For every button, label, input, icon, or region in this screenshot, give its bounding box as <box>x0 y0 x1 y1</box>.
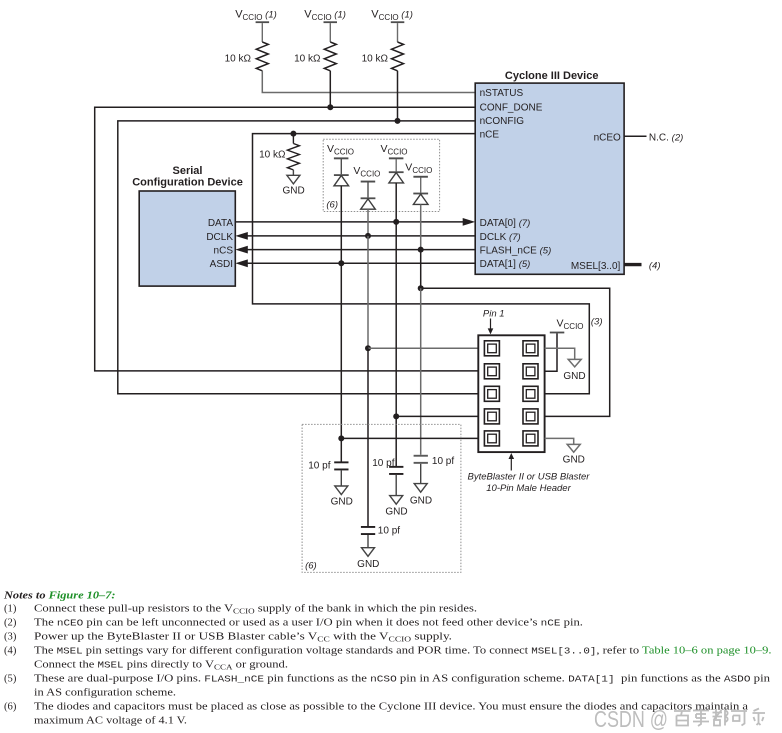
capacitor C4 10 pf <box>414 455 455 467</box>
bus MSEL[3..0] stub <box>624 263 641 266</box>
svg-text:Connect the MSEL pins directly: Connect the MSEL pins directly to VCCA o… <box>34 660 288 672</box>
svg-text:10-Pin Male Header: 10-Pin Male Header <box>486 483 571 494</box>
junction D4/nCS <box>418 247 424 253</box>
note 2 <box>4 618 583 629</box>
arrowhead into DATA[0] <box>463 218 476 226</box>
arrowhead into ASDI of U2 <box>235 259 248 267</box>
wire CONF_DONE loop to header pin 3 <box>95 107 479 371</box>
wire resistor R2 to CONF_DONE line <box>329 71 331 108</box>
svg-text:nCE: nCE <box>480 129 500 140</box>
svg-text:(3): (3) <box>591 316 603 327</box>
wire D4 to nCS line <box>420 204 422 249</box>
svg-text:GND: GND <box>410 496 432 507</box>
ground GND below C2 <box>357 535 379 570</box>
svg-text:(6): (6) <box>4 702 17 713</box>
svg-text:10 pf: 10 pf <box>432 456 454 467</box>
svg-text:nCEO: nCEO <box>594 132 621 143</box>
ground GND at header pin 10 <box>545 438 585 465</box>
pin 6 square <box>523 386 538 401</box>
svg-text:DATA: DATA <box>208 218 234 229</box>
svg-text:DCLK: DCLK <box>206 232 233 243</box>
note 1 <box>4 604 477 616</box>
resistor R4 10 kOhm pull-down on nCE <box>259 134 299 170</box>
svg-text:Connect these pull-up resistor: Connect these pull-up resistors to the V… <box>34 604 477 616</box>
wire resistor R3 to nCONFIG line <box>397 71 399 121</box>
svg-text:Cyclone III Device: Cyclone III Device <box>505 70 599 82</box>
svg-text:10 pf: 10 pf <box>372 458 394 469</box>
svg-text:CSDN @: CSDN @ <box>594 706 668 732</box>
wire D3 to DATA line <box>395 183 397 222</box>
svg-text:nCS: nCS <box>214 246 234 257</box>
label ByteBlaster with arrow <box>468 453 591 494</box>
watermark CSDN <box>594 706 765 732</box>
svg-text:10 pf: 10 pf <box>308 460 330 471</box>
svg-text:Configuration Device: Configuration Device <box>132 177 243 189</box>
svg-text:Serial: Serial <box>173 165 203 177</box>
note 5 <box>4 674 771 699</box>
chip U1 Cyclone III Device <box>475 70 624 274</box>
wire ASDI line <box>247 262 475 264</box>
pin 3 square <box>484 364 499 379</box>
svg-text:(3): (3) <box>4 632 17 643</box>
wire DCLK line <box>247 235 475 237</box>
junction DATA/header pin 7 tap <box>393 413 399 419</box>
svg-text:GND: GND <box>563 371 585 382</box>
wire nCONFIG loop to header pin 5 <box>118 121 479 394</box>
svg-text:in AS configuration scheme.: in AS configuration scheme. <box>34 688 176 699</box>
pin 8 square <box>523 409 538 424</box>
junction ASDI/header pin 9 tap <box>338 435 344 441</box>
power rail VCCIO for D3 <box>381 143 408 159</box>
junction D2/DCLK <box>365 233 371 239</box>
wire resistor R1 to nSTATUS line <box>262 71 475 93</box>
wire DCLK down (gray) to pin1 tap <box>367 236 369 348</box>
svg-text:10 pf: 10 pf <box>378 526 400 537</box>
power rail VCCIO (1) for R2 <box>304 9 346 24</box>
svg-text:FLASH_nCE (5): FLASH_nCE (5) <box>480 246 552 257</box>
capacitor C1 10 pf <box>308 460 348 471</box>
junction R2/CONF_DONE <box>327 104 333 110</box>
svg-text:These are dual-purpose I/O pin: These are dual-purpose I/O pins. FLASH_n… <box>34 674 771 685</box>
diode clamp box (6) dotted <box>323 139 439 211</box>
svg-text:GND: GND <box>282 185 304 196</box>
svg-text:CONF_DONE: CONF_DONE <box>480 103 543 114</box>
svg-text:(4): (4) <box>4 646 17 657</box>
wire DATA down to capacitor C3 <box>395 222 397 466</box>
connector J1 ByteBlaster 10-pin header outline <box>478 335 544 452</box>
power rail VCCIO (1) for R1 <box>235 9 277 24</box>
note 3 <box>4 632 452 644</box>
svg-text:DCLK (7): DCLK (7) <box>480 232 521 243</box>
wire ASDI down to capacitor C1 <box>340 263 342 461</box>
capacitor C3 10 pf <box>372 458 403 475</box>
svg-text:Notes to Figure 10–7:: Notes to Figure 10–7: <box>3 591 116 602</box>
ground GND below C4 <box>410 464 432 507</box>
junction FLASH_nCE loop <box>418 285 424 291</box>
note 4 <box>4 646 772 672</box>
diode D1 (clamps ASDI) <box>334 159 349 186</box>
svg-text:DATA[0] (7): DATA[0] (7) <box>480 218 531 229</box>
wire nCEO to N.C. <box>624 135 646 137</box>
resistor R2 10 kOhm pull-up (CONF_DONE) <box>294 23 336 71</box>
arrowhead into DCLK of U2 <box>235 232 248 240</box>
wire FLASH_nCE loop to header pin 8 <box>421 288 610 416</box>
svg-text:ByteBlaster II or USB Blaster: ByteBlaster II or USB Blaster <box>468 472 591 483</box>
ground GND below R4 <box>282 170 304 196</box>
pin 5 square <box>484 386 499 401</box>
svg-text:GND: GND <box>331 497 353 508</box>
svg-text:(5): (5) <box>4 674 17 685</box>
junction DCLK/header pin 1 tap <box>365 345 371 351</box>
svg-text:maximum AC voltage of 4.1 V.: maximum AC voltage of 4.1 V. <box>34 716 187 727</box>
junction nCE/pull-down R4 <box>290 131 296 137</box>
ground GND below C1 <box>331 470 353 507</box>
svg-text:GND: GND <box>385 507 407 518</box>
capacitor box (6) dotted <box>302 424 461 572</box>
svg-text:ASDI: ASDI <box>210 259 233 270</box>
junction D3/DATA <box>393 219 399 225</box>
svg-text:The nCEO pin can be left uncon: The nCEO pin can be left unconnected or … <box>34 618 583 629</box>
svg-text:nCONFIG: nCONFIG <box>480 116 525 127</box>
wire D1 to ASDI line <box>340 186 342 263</box>
diode D3 (clamps DATA) <box>389 159 404 183</box>
svg-text:(6): (6) <box>305 561 317 572</box>
junction D1/ASDI <box>338 260 344 266</box>
pin 9 square <box>484 431 499 446</box>
svg-text:nSTATUS: nSTATUS <box>480 88 524 99</box>
pin 7 square <box>484 409 499 424</box>
power rail VCCIO for D1 <box>327 143 354 159</box>
resistor R3 10 kOhm pull-up (nCONFIG) <box>362 23 404 71</box>
wire nCE loop to header pin 6 <box>253 134 590 394</box>
chip U2 Serial Configuration Device <box>132 165 243 286</box>
pin 10 square <box>523 431 538 446</box>
junction R3/nCONFIG <box>395 118 401 124</box>
diode D4 (clamps nCS) <box>413 177 428 204</box>
power rail VCCIO (3) at header pin 4 <box>545 316 603 371</box>
svg-text:10 kΩ: 10 kΩ <box>259 150 286 161</box>
svg-text:N.C. (2): N.C. (2) <box>649 132 683 143</box>
wire ASDI tap to header pin 9 <box>341 437 478 439</box>
note 6 <box>4 702 748 727</box>
diode D2 (clamps DCLK) <box>361 182 376 209</box>
wire DCLK down to capacitor C2 <box>367 348 369 527</box>
wire D2 to DCLK line <box>367 209 369 236</box>
ground GND below C3 <box>385 475 407 518</box>
svg-text:GND: GND <box>563 455 585 466</box>
power rail VCCIO (1) for R3 <box>371 9 413 24</box>
svg-text:10 kΩ: 10 kΩ <box>294 54 321 65</box>
wire DATA line <box>235 221 463 223</box>
wire DATA tap to header pin 7 <box>396 415 478 417</box>
pin 1 square <box>484 341 499 356</box>
wire nCS to capacitor C4 <box>420 288 422 455</box>
wire nCS down to FLASH_nCE loop <box>420 250 422 289</box>
wire DCLK tap to header pin 1 <box>368 347 478 349</box>
pin 2 square <box>523 341 538 356</box>
svg-text:(2): (2) <box>4 618 17 629</box>
svg-text:MSEL[3..0]: MSEL[3..0] <box>571 261 621 272</box>
label Pin 1 with arrow <box>483 309 505 335</box>
svg-text:10 kΩ: 10 kΩ <box>225 54 252 65</box>
ground GND at header pin 2 <box>545 348 586 382</box>
svg-text:(4): (4) <box>649 260 661 271</box>
svg-text:GND: GND <box>357 559 379 570</box>
power rail VCCIO for D2 <box>353 165 380 182</box>
power rail VCCIO for D4 <box>405 162 432 178</box>
resistor R1 10 kOhm pull-up (nSTATUS) <box>225 23 269 71</box>
svg-text:DATA[1] (5): DATA[1] (5) <box>480 259 531 270</box>
svg-text:Pin 1: Pin 1 <box>483 309 505 320</box>
svg-text:(6): (6) <box>326 199 338 210</box>
svg-text:10 kΩ: 10 kΩ <box>362 54 389 65</box>
pin 4 square <box>523 364 538 379</box>
arrowhead into nCS of U2 <box>235 246 248 254</box>
wire nCS line <box>247 249 475 251</box>
svg-text:The MSEL pin settings vary for: The MSEL pin settings vary for different… <box>34 646 772 657</box>
capacitor C2 10 pf <box>361 526 400 537</box>
svg-text:(1): (1) <box>4 604 17 615</box>
